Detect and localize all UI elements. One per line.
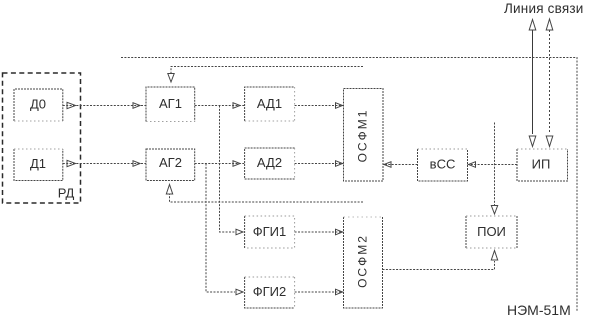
sensor Д0 — [14, 89, 63, 121]
svg-text:АД2: АД2 — [257, 155, 282, 170]
arrowhead into ФГИ2 — [236, 289, 243, 295]
arrowhead into АГ1 — [133, 103, 140, 109]
svg-text:Линия связи: Линия связи — [504, 1, 583, 16]
block ФГИ1 — [244, 216, 246, 248]
wire: sync line to АГ1 top — [171, 67, 363, 74]
arrowhead down into АГ1 — [168, 74, 174, 83]
wire АД1 to ОСФМ1 — [295, 105, 344, 107]
wire: communication line (solid) — [532, 30, 534, 134]
sensor Д1 — [14, 149, 63, 181]
wire down to ПОИ — [494, 123, 496, 206]
wire ИП to вСС — [468, 164, 518, 166]
svg-text:ФГИ2: ФГИ2 — [253, 284, 287, 299]
svg-text:ПОИ: ПОИ — [477, 224, 506, 239]
arrowhead exiting Д1 — [67, 160, 76, 166]
arrowhead down into ПОИ — [491, 206, 497, 215]
svg-text:АГ1: АГ1 — [159, 96, 182, 111]
wire АД2 to ОСФМ1 — [295, 163, 344, 165]
wire Д1 to АГ2 — [63, 163, 146, 165]
arrowhead into ОСФМ2 lower — [336, 289, 343, 295]
wire tap to ФГИ2 — [206, 164, 235, 293]
wire Д0 to АГ1 — [63, 105, 146, 107]
block АГ2 — [146, 149, 195, 181]
wire: communication line (dashed) — [549, 30, 551, 134]
arrowhead into ОСФМ1 lower — [336, 161, 343, 167]
arrowhead up into ПОИ — [491, 251, 497, 261]
wire АГ1 to АД1 — [195, 105, 245, 107]
svg-text:ОСФМ2: ОСФМ2 — [356, 234, 370, 288]
block АД1 — [245, 87, 295, 121]
wire ФГИ2 to ОСФМ2 — [295, 291, 344, 293]
arrowhead into ОСФМ1 upper — [336, 103, 343, 109]
svg-text:АД1: АД1 — [257, 96, 282, 111]
svg-text:РД: РД — [58, 186, 75, 201]
arrowhead exiting Д0 — [67, 102, 76, 108]
arrowhead left into ОСФМ1 — [384, 162, 391, 168]
block АД2 — [245, 148, 295, 179]
wire ФГИ1 to ОСФМ2 — [295, 231, 344, 233]
block ПОИ — [466, 216, 517, 248]
svg-text:ОСФМ1: ОСФМ1 — [356, 109, 370, 163]
wire вСС to ОСФМ1 — [383, 164, 418, 166]
arrowhead up into АГ2 — [166, 185, 172, 195]
wire sync from ОСФМ1 to АГ2 bottom — [170, 194, 364, 202]
arrowhead into АД2 — [233, 161, 240, 167]
wire АГ2 to АД2 — [195, 163, 245, 165]
block АГ1 — [146, 87, 195, 122]
arrowhead into АД1 — [233, 103, 240, 109]
wire ОСФМ2 to ПОИ — [383, 261, 495, 270]
svg-text:НЭМ-51М: НЭМ-51М — [507, 302, 571, 318]
block РД (dashed enclosure) — [3, 73, 81, 203]
arrowhead up on solid comm line — [529, 20, 536, 31]
arrowhead into ОСФМ2 upper — [336, 229, 343, 235]
arrowhead left into вСС — [469, 162, 476, 168]
wire tap to ФГИ1 — [220, 106, 236, 233]
arrowhead into ФГИ1 — [236, 229, 243, 235]
wire: top bus and right side rail — [121, 58, 577, 312]
block ИП — [517, 149, 568, 181]
svg-text:ФГИ1: ФГИ1 — [253, 224, 287, 239]
block ФГИ2 — [245, 277, 295, 308]
block ОСФМ2 — [344, 217, 383, 308]
arrowhead into АГ2 — [133, 161, 140, 167]
arrowhead up on dashed comm line — [546, 19, 553, 30]
block ОСФМ1 — [344, 89, 384, 182]
svg-text:вСС: вСС — [430, 157, 456, 172]
svg-text:ИП: ИП — [532, 157, 551, 172]
svg-text:АГ2: АГ2 — [159, 155, 182, 170]
block вСС — [418, 149, 468, 181]
svg-text:Д1: Д1 — [30, 156, 46, 171]
arrowhead down on dashed comm line — [546, 136, 553, 147]
arrowhead down on solid comm line — [529, 136, 536, 147]
svg-text:Д0: Д0 — [30, 97, 46, 112]
